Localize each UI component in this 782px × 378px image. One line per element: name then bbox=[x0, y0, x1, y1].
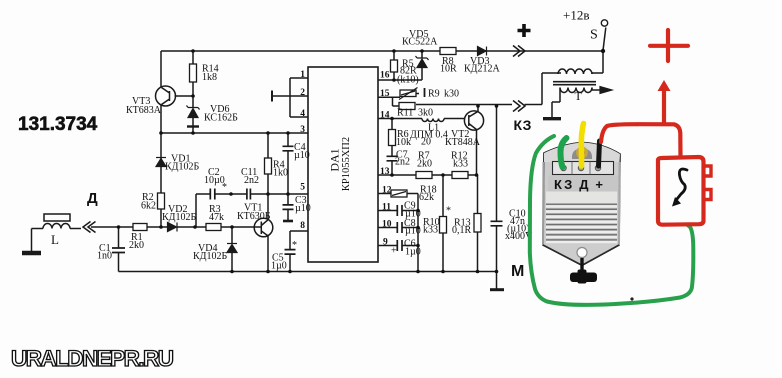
svg-text:2k0: 2k0 bbox=[417, 159, 432, 170]
svg-text:15: 15 bbox=[380, 89, 390, 99]
svg-text:k33: k33 bbox=[453, 159, 468, 170]
svg-text:1: 1 bbox=[300, 70, 305, 80]
svg-text:2n2: 2n2 bbox=[244, 175, 259, 186]
svg-text:k30: k30 bbox=[444, 89, 459, 100]
svg-text:131.3734: 131.3734 bbox=[18, 114, 98, 135]
svg-text:8: 8 bbox=[300, 221, 305, 231]
svg-text:КЗ: КЗ bbox=[514, 117, 532, 133]
svg-text:КД212А: КД212А bbox=[464, 64, 500, 75]
svg-text:КЗ Д +: КЗ Д + bbox=[554, 177, 603, 192]
svg-text:1µ0: 1µ0 bbox=[271, 261, 287, 272]
svg-text:k33: k33 bbox=[423, 225, 438, 236]
svg-text:2n2: 2n2 bbox=[395, 157, 410, 168]
svg-text:10R: 10R bbox=[440, 64, 457, 75]
svg-text:КД102Б: КД102Б bbox=[165, 162, 199, 173]
svg-text:S: S bbox=[590, 28, 598, 43]
svg-text:Д: Д bbox=[87, 190, 98, 207]
svg-text:L: L bbox=[51, 232, 59, 247]
svg-text:R11: R11 bbox=[397, 108, 413, 119]
svg-text:1k8: 1k8 bbox=[202, 72, 217, 83]
svg-text:µ10: µ10 bbox=[294, 150, 310, 161]
svg-text:5: 5 bbox=[300, 183, 305, 193]
svg-text:КС522А: КС522А bbox=[402, 37, 438, 48]
svg-text:47k: 47k bbox=[209, 212, 224, 223]
svg-text:2: 2 bbox=[300, 88, 305, 98]
svg-text:11: 11 bbox=[382, 203, 391, 213]
svg-text:DA1: DA1 bbox=[328, 148, 342, 171]
svg-text:62k: 62k bbox=[419, 192, 434, 203]
svg-text:14: 14 bbox=[380, 111, 390, 121]
svg-text:M: M bbox=[511, 263, 524, 280]
svg-text:16: 16 bbox=[380, 71, 390, 81]
svg-text:13: 13 bbox=[380, 167, 390, 177]
svg-text:(k10): (k10) bbox=[397, 75, 419, 86]
svg-text:КР1055ХП2: КР1055ХП2 bbox=[341, 137, 352, 191]
svg-text:1µ0: 1µ0 bbox=[405, 247, 421, 258]
svg-text:T: T bbox=[575, 89, 583, 103]
svg-text:20: 20 bbox=[421, 137, 431, 148]
svg-text:КТ630Б: КТ630Б bbox=[237, 211, 271, 222]
svg-text:1n0: 1n0 bbox=[97, 251, 112, 262]
svg-text:*: * bbox=[292, 240, 297, 251]
svg-text:+12в: +12в bbox=[563, 8, 589, 23]
svg-text:3: 3 bbox=[300, 125, 305, 135]
svg-text:4: 4 bbox=[300, 109, 305, 119]
svg-text:КД102Б: КД102Б bbox=[193, 251, 227, 262]
svg-text:6k2: 6k2 bbox=[141, 201, 156, 212]
svg-text:+: + bbox=[391, 246, 397, 257]
svg-text:URALDNEPR.RU: URALDNEPR.RU bbox=[11, 346, 174, 371]
svg-text:µ10: µ10 bbox=[405, 226, 421, 237]
svg-text:1k0: 1k0 bbox=[273, 168, 288, 179]
svg-text:3k0: 3k0 bbox=[418, 108, 433, 119]
svg-text:10: 10 bbox=[382, 220, 392, 230]
svg-text:КД102Б: КД102Б bbox=[162, 212, 196, 223]
svg-text:*: * bbox=[446, 206, 451, 217]
svg-text:КТ683А: КТ683А bbox=[126, 105, 162, 116]
svg-text:2k0: 2k0 bbox=[129, 240, 144, 251]
svg-text:9: 9 bbox=[383, 238, 388, 248]
svg-text:0,1R: 0,1R bbox=[452, 225, 472, 236]
svg-text:*: * bbox=[222, 182, 227, 193]
svg-text:10k: 10k bbox=[396, 137, 411, 148]
svg-text:µ10: µ10 bbox=[295, 203, 311, 214]
svg-text:КС162Б: КС162Б bbox=[204, 113, 238, 124]
svg-text:КТ848А: КТ848А bbox=[445, 137, 481, 148]
svg-text:R9: R9 bbox=[428, 89, 440, 100]
svg-text:12: 12 bbox=[382, 186, 392, 196]
